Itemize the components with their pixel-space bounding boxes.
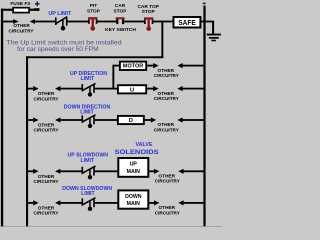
svg-text:OTHER: OTHER xyxy=(38,91,55,97)
svg-text:MOTOR: MOTOR xyxy=(123,64,144,70)
pushbutton PIT STOP (mushroom NC) xyxy=(88,17,97,31)
right supply rail (-) xyxy=(203,6,205,228)
label UP SLOWDOWN LIMIT xyxy=(68,153,109,164)
label FUSE F3 xyxy=(10,1,30,7)
fuse F3 xyxy=(13,8,29,13)
+ terminal mark xyxy=(35,2,40,7)
svg-text:OTHER: OTHER xyxy=(38,123,55,129)
wire: right rail to U arrow xyxy=(177,86,203,91)
branch bus to MOTOR xyxy=(112,65,120,90)
wire: rung6 to DOWN SLOWDOWN LIMIT switch xyxy=(55,200,82,205)
- terminal mark xyxy=(203,3,206,5)
node: rung5 stub from bus with arrow xyxy=(27,169,38,174)
label CAR TOP STOP xyxy=(137,4,159,15)
left supply rail (+) xyxy=(1,9,3,227)
wire: right rail to DOWN MAIN arrow xyxy=(178,200,203,205)
wire: CAR STOP to CAR TOP STOP xyxy=(124,21,145,23)
solenoid coil UP MAIN xyxy=(118,158,148,177)
limit switch DOWN SLOWDOWN LIMIT xyxy=(82,198,96,211)
svg-text:OTHER: OTHER xyxy=(158,122,175,128)
svg-text:CIRCUITRY: CIRCUITRY xyxy=(34,211,60,217)
svg-text:CIRCUITRY: CIRCUITRY xyxy=(34,96,60,102)
wire arrow: MOTOR to other circuitry xyxy=(146,63,158,68)
svg-text:VALVE: VALVE xyxy=(136,142,153,148)
note: up limit requirement xyxy=(6,40,122,53)
wire: rung3 to DOWN DIRECTION LIMIT switch xyxy=(55,117,82,122)
svg-text:CIRCUITRY: CIRCUITRY xyxy=(154,96,180,102)
bottom scan edge xyxy=(0,225,222,228)
label OTHER CIRCUITRY (MOTOR right) xyxy=(154,68,180,79)
svg-text:CIRCUITRY: CIRCUITRY xyxy=(34,128,60,134)
label UP LIMIT xyxy=(48,11,72,17)
svg-text:OTHER: OTHER xyxy=(158,91,175,97)
label DOWN SLOWDOWN LIMIT xyxy=(62,186,112,197)
svg-text:CIRCUITRY: CIRCUITRY xyxy=(155,210,181,216)
svg-text:FUSE F3: FUSE F3 xyxy=(10,1,30,7)
label OTHER CIRCUITRY (U right) xyxy=(154,91,180,102)
wire: left rail to fuse xyxy=(1,9,14,11)
label OTHER CIRCUITRY (rung3 left) xyxy=(34,123,60,134)
svg-text:OTHER: OTHER xyxy=(159,174,176,180)
wire: rung5 to UP SLOWDOWN LIMIT switch xyxy=(55,169,82,174)
label OTHER CIRCUITRY (D right) xyxy=(154,122,180,133)
wire: CAR TOP STOP to SAFE coil xyxy=(153,21,174,23)
relay coil U xyxy=(118,85,146,93)
svg-text:CIRCUITRY: CIRCUITRY xyxy=(154,73,180,79)
svg-text:SAFE: SAFE xyxy=(178,18,196,27)
label OTHER CIRCUITRY (rung1 left) xyxy=(9,23,35,34)
node: rung2 stub from bus with arrow xyxy=(27,86,38,91)
svg-text:CIRCUITRY: CIRCUITRY xyxy=(34,179,60,185)
solenoid coil DOWN MAIN xyxy=(118,190,148,208)
svg-text:PIT: PIT xyxy=(90,3,98,9)
limit switch UP SLOWDOWN LIMIT xyxy=(82,166,96,179)
wire: right rail to D arrow xyxy=(177,117,203,122)
svg-text:CIRCUITRY: CIRCUITRY xyxy=(9,28,35,34)
wire: rung2 to UP DIRECTION LIMIT switch xyxy=(55,86,82,91)
node: rung6 stub from bus with arrow xyxy=(27,200,38,205)
svg-text:UP LIMIT: UP LIMIT xyxy=(48,11,72,17)
junction: drop to lower-rung feeder xyxy=(161,21,163,58)
wire arrow: DOWN MAIN to other circuitry xyxy=(148,200,159,205)
wire: fuse to + terminal xyxy=(29,8,39,11)
wire: SAFE to right rail xyxy=(200,21,204,23)
svg-text:STOP: STOP xyxy=(87,8,101,14)
svg-text:DOWN: DOWN xyxy=(125,194,142,200)
label CAR STOP xyxy=(114,3,128,14)
ground xyxy=(207,34,221,42)
wire arrow: D to other circuitry xyxy=(144,117,156,122)
svg-text:LIMIT: LIMIT xyxy=(81,158,95,164)
svg-text:UP: UP xyxy=(130,161,138,167)
relay coil SAFE xyxy=(174,17,201,28)
svg-text:STOP: STOP xyxy=(114,8,128,14)
label PIT STOP xyxy=(87,3,101,14)
wire arrow: U to other circuitry xyxy=(146,86,158,91)
svg-text:OTHER: OTHER xyxy=(159,205,176,211)
key switch CAR STOP xyxy=(116,17,125,24)
wire: right rail to UP MAIN arrow xyxy=(178,169,203,174)
limit switch UP LIMIT xyxy=(55,17,68,31)
svg-text:LIMIT: LIMIT xyxy=(81,76,95,82)
svg-text:D: D xyxy=(129,118,133,124)
label OTHER CIRCUITRY (UP MAIN right) xyxy=(155,174,181,185)
relay coil D xyxy=(118,116,144,124)
svg-text:for car speeds over 50 FPM: for car speeds over 50 FPM xyxy=(17,46,99,53)
wire: switch to U/MOTOR branch xyxy=(95,88,119,90)
wire: lower-rung feeder top bus xyxy=(26,56,163,58)
svg-text:LIMIT: LIMIT xyxy=(81,191,95,197)
limit switch UP DIRECTION LIMIT xyxy=(82,83,96,96)
svg-text:CAR TOP: CAR TOP xyxy=(137,4,159,10)
label OTHER CIRCUITRY (rung2 left) xyxy=(34,91,60,102)
svg-text:CAR: CAR xyxy=(115,3,126,9)
wire: PIT STOP to CAR STOP xyxy=(97,21,116,23)
svg-text:KEY SWITCH: KEY SWITCH xyxy=(105,27,137,33)
node: rung1 stub from rail, arrow to other circuitry xyxy=(3,19,19,24)
wire: stub from rail to ground xyxy=(204,21,214,34)
svg-text:STOP: STOP xyxy=(142,9,156,15)
label OTHER CIRCUITRY (DOWN MAIN right) xyxy=(155,205,181,216)
label DOWN DIRECTION LIMIT xyxy=(64,104,111,115)
svg-text:MAIN: MAIN xyxy=(127,169,141,175)
svg-text:OTHER: OTHER xyxy=(38,174,55,180)
svg-text:CIRCUITRY: CIRCUITRY xyxy=(154,127,180,133)
relay coil MOTOR xyxy=(120,62,146,70)
svg-text:CIRCUITRY: CIRCUITRY xyxy=(155,179,181,185)
wire: right rail to MOTOR arrow xyxy=(177,63,203,68)
pushbutton CAR TOP STOP (mushroom NC) xyxy=(144,17,153,31)
label OTHER CIRCUITRY (rung5 left) xyxy=(34,174,60,185)
svg-text:U: U xyxy=(130,87,134,93)
svg-text:LIMIT: LIMIT xyxy=(80,109,94,115)
label OTHER CIRCUITRY (rung6 left) xyxy=(34,205,60,216)
left feeder bus xyxy=(26,56,28,227)
label KEY SWITCH xyxy=(105,27,137,33)
svg-text:SOLENOIDS: SOLENOIDS xyxy=(115,149,159,156)
wire: switch to D coil xyxy=(95,119,118,121)
limit switch DOWN DIRECTION LIMIT xyxy=(82,115,96,128)
svg-text:OTHER: OTHER xyxy=(13,23,30,29)
wire: rung1 from other circuitry to UP LIMIT switch xyxy=(30,19,55,24)
title VALVE SOLENOIDS xyxy=(115,142,159,156)
wire: switch to UP MAIN coil xyxy=(95,170,119,172)
wire arrow: UP MAIN to other circuitry xyxy=(148,169,159,174)
label UP DIRECTION LIMIT xyxy=(70,71,107,82)
wire: UP LIMIT to PIT STOP xyxy=(68,21,89,23)
svg-text:MAIN: MAIN xyxy=(127,201,141,207)
svg-text:OTHER: OTHER xyxy=(158,68,175,74)
wire: switch to DOWN MAIN coil xyxy=(95,202,119,204)
svg-text:OTHER: OTHER xyxy=(38,205,55,211)
node: rung3 stub from bus with arrow xyxy=(27,117,38,122)
